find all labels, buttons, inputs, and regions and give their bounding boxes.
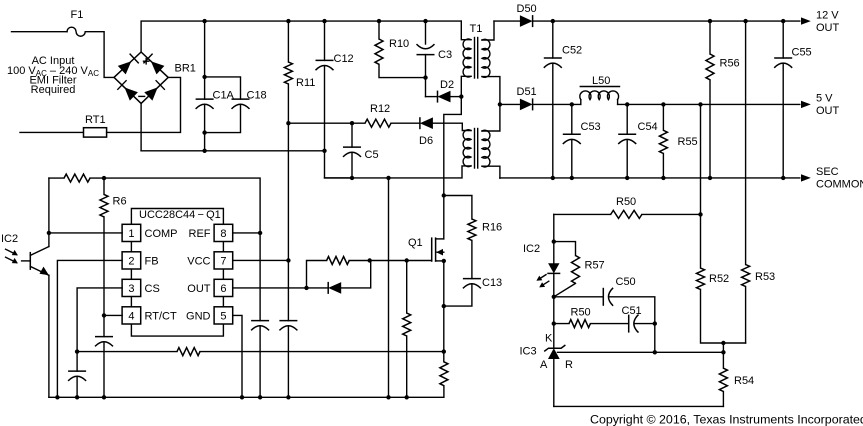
wire C1A top branch — [204, 21, 206, 99]
node D2 anode / switch line — [459, 94, 463, 98]
svg-text:7: 7 — [220, 255, 226, 267]
wire snubber branch top — [444, 196, 472, 220]
wire HV+ top rail — [141, 21, 461, 52]
svg-text:R57: R57 — [585, 260, 605, 272]
node opto cathode / compensation — [552, 295, 556, 299]
node ground rail / CS cap — [75, 395, 79, 399]
op-amp U1 UCC28C44-Q1 box outline — [131, 209, 223, 337]
svg-text:4: 4 — [128, 310, 134, 322]
svg-text:FB: FB — [145, 255, 159, 267]
svg-text:L50: L50 — [592, 75, 610, 87]
wire 5V rail — [618, 103, 800, 105]
svg-text:R50: R50 — [616, 196, 636, 208]
svg-text:GND: GND — [186, 310, 211, 322]
wire bridge top corner to HV top rail — [140, 103, 142, 150]
svg-text:Copyright © 2016, Texas Instru: Copyright © 2016, Texas Instruments Inco… — [590, 413, 863, 426]
svg-text:D50: D50 — [517, 3, 537, 15]
svg-text:5 V: 5 V — [816, 93, 833, 105]
wire AC line 1 (left segment to fuse) — [12, 31, 68, 33]
node snubber return — [442, 304, 446, 308]
label bridge minus — [139, 95, 145, 97]
capacitor C50 — [554, 288, 655, 353]
LED light arrow 2 — [539, 281, 549, 287]
svg-text:K: K — [545, 333, 553, 345]
wire HV negative rail — [141, 150, 324, 152]
arrow 12V output — [801, 17, 811, 24]
diode IC2 opto LED — [547, 263, 560, 348]
node drain branch junction — [442, 193, 446, 197]
svg-text:F1: F1 — [71, 9, 84, 21]
svg-text:R50: R50 — [571, 307, 591, 319]
node ground rail / equalize drop — [386, 395, 390, 399]
svg-text:D6: D6 — [419, 135, 433, 147]
diode D50 — [520, 15, 533, 27]
svg-text:IC2: IC2 — [1, 233, 18, 245]
opto light arrow 2 — [6, 257, 18, 263]
wire SEC COMMON rail — [500, 177, 800, 179]
node RT/CT junction — [102, 313, 106, 317]
wire bottom return to IC3 anode — [554, 405, 724, 407]
svg-text:RT1: RT1 — [85, 114, 106, 126]
node 12V / C55 — [781, 19, 785, 23]
node R6 top / REF line — [102, 176, 106, 180]
wire opto LED anode column — [553, 214, 555, 263]
resistor R54 — [719, 352, 727, 406]
bridge diode D-d (bottom corner to right corner) — [144, 81, 164, 101]
node 5V / C54 — [625, 102, 629, 106]
wire CS filter line right — [200, 351, 444, 353]
pin 7 box — [214, 252, 233, 269]
node FB / R54 — [721, 350, 725, 354]
node SEC / C54 — [625, 176, 629, 180]
svg-text:BR1: BR1 — [175, 63, 196, 75]
node CS junction — [442, 349, 446, 353]
resistor R11 (startup, HV rail to VCC) — [284, 21, 292, 260]
node HV rail / C3 — [423, 19, 427, 23]
node C1A/C18 bottom join — [202, 130, 206, 134]
node HV rail / R10 — [377, 19, 381, 23]
transformer T1 primary winding — [444, 21, 471, 195]
svg-text:C51: C51 — [622, 305, 642, 317]
svg-text:R54: R54 — [734, 375, 754, 387]
node SEC / C53 — [570, 176, 574, 180]
diode gate turn-off — [307, 261, 371, 294]
wire bias rectifier line (R11 to R12) — [288, 122, 365, 124]
svg-text:SEC: SEC — [816, 166, 839, 178]
wire IC3 ref to FB line — [558, 351, 724, 353]
svg-text:D51: D51 — [517, 86, 537, 98]
pin 4 box — [122, 307, 141, 324]
node R52 column / R50 tap — [698, 212, 702, 216]
node ground rail / pulldown — [405, 395, 409, 399]
wire RT1 to bridge right corner — [107, 77, 181, 132]
wire D51 branch — [500, 103, 520, 105]
transformer T1 secondary winding (12V) — [482, 21, 500, 131]
bridge diode D-a (left corner to top corner) — [118, 54, 139, 74]
svg-text:OUT: OUT — [816, 22, 840, 34]
node C5 top — [350, 121, 354, 125]
node HV rail / C1A — [202, 19, 206, 23]
resistor gate drive — [327, 257, 350, 265]
LED light arrow 1 — [536, 275, 546, 281]
fuse F1 — [67, 27, 85, 36]
node REF junction — [258, 231, 262, 235]
capacitor REF bypass — [251, 233, 269, 397]
node SEC / R56 — [708, 176, 712, 180]
transformer T1 secondary winding (5V) — [482, 130, 500, 178]
pin 6 box — [214, 279, 233, 296]
resistor R56 — [706, 21, 714, 178]
transformer T1 core — [475, 38, 478, 169]
diode D2 (clamp) — [426, 91, 462, 103]
capacitor C1A — [196, 99, 214, 133]
node Q1 source — [442, 259, 446, 263]
resistor CS filter — [177, 348, 200, 356]
diode D6 (bias rectifier) — [391, 117, 471, 130]
node neg rail / C1A bottom — [202, 149, 206, 153]
capacitor C13 — [444, 279, 481, 307]
svg-text:T1: T1 — [470, 23, 483, 35]
resistor R12 — [365, 119, 391, 127]
node divider join — [721, 341, 725, 345]
svg-text:C1A: C1A — [213, 90, 235, 102]
wire ground equalize drop — [388, 178, 390, 397]
capacitor C52 — [544, 21, 562, 178]
node C5 bottom — [350, 176, 354, 180]
svg-text:IC3: IC3 — [520, 346, 537, 358]
node ground rail / VCC cap — [286, 395, 290, 399]
resistor current sense — [49, 352, 448, 398]
svg-text:R55: R55 — [678, 136, 698, 148]
node 5V / R55 — [661, 102, 665, 106]
resistor REF pull-up — [64, 174, 90, 182]
wire OUT pin network: riser — [307, 261, 327, 288]
svg-text:C50: C50 — [616, 276, 636, 288]
node COMP / opto collector — [47, 231, 51, 235]
wire REF pull-up line — [49, 177, 64, 179]
node SEC / C55 — [781, 176, 785, 180]
node 12V / R56 — [708, 19, 712, 23]
svg-text:C53: C53 — [581, 121, 601, 133]
resistor R53 (12V feedback) — [742, 21, 750, 343]
svg-text:C12: C12 — [334, 53, 354, 65]
svg-text:REF: REF — [189, 228, 211, 240]
capacitor C53 — [563, 104, 581, 177]
svg-text:COMMON: COMMON — [816, 179, 863, 191]
pin 8 box — [214, 224, 233, 241]
resistor R57 — [554, 242, 580, 297]
inductor L50 — [580, 87, 620, 105]
resistor R16 — [468, 219, 476, 240]
pin 5 box — [214, 307, 233, 324]
node compensation column join — [653, 321, 657, 325]
svg-text:R11: R11 — [296, 77, 315, 89]
wire pin1 COMP to opto collector — [49, 232, 122, 234]
node OUT network split — [304, 286, 308, 290]
wire 12V rail — [533, 20, 800, 22]
svg-text:D2: D2 — [440, 79, 454, 91]
opto light arrow 1 — [6, 249, 18, 255]
node primary ground drop — [386, 176, 390, 180]
resistor gate pulldown — [403, 261, 411, 398]
node 5V / C53 — [570, 102, 574, 106]
svg-text:CS: CS — [145, 283, 160, 295]
wire C18 top branch — [205, 77, 241, 99]
node R50/C51 branch — [552, 321, 556, 325]
node neg rail / C12 bottom corner — [322, 149, 326, 153]
svg-text:OUT: OUT — [187, 283, 211, 295]
svg-text:Q1: Q1 — [408, 237, 423, 249]
svg-text:R52: R52 — [709, 273, 729, 285]
bridge diode D-c (bottom corner to left corner) — [118, 81, 138, 101]
wire Q1 source down — [443, 261, 445, 352]
pin 1 box — [122, 224, 141, 241]
wire pin6 OUT stub — [233, 287, 307, 289]
svg-text:3: 3 — [128, 283, 134, 295]
wire pin2 FB to ground — [57, 260, 122, 397]
node secondary mid tap (D51) — [498, 102, 502, 106]
node 12V / R53 — [743, 19, 747, 23]
svg-text:A: A — [540, 359, 548, 371]
node CS filter junction — [75, 349, 79, 353]
node VCC junction — [286, 258, 290, 262]
capacitor CS filter — [68, 352, 86, 398]
wire D51 to C53 node — [533, 103, 581, 105]
node 5V / R52 — [698, 102, 702, 106]
svg-text:R16: R16 — [482, 222, 502, 234]
capacitor C12 — [316, 21, 353, 178]
node ground rail / CT cap — [102, 395, 106, 399]
resistor R50 (opto feed) — [554, 210, 701, 218]
node SEC / C52 — [551, 176, 555, 180]
node LED anode / R57 — [552, 239, 556, 243]
svg-text:C5: C5 — [365, 149, 379, 161]
thermistor RT1 — [84, 128, 107, 137]
pin 3 box — [122, 279, 141, 296]
svg-text:RT/CT: RT/CT — [145, 310, 177, 322]
bridge diode D-b (right corner to top corner) — [144, 54, 165, 74]
node 12V / C52 — [551, 19, 555, 23]
wire pull-up to REF column — [90, 178, 260, 233]
wire gate resistor to gate node — [349, 260, 432, 262]
shunt regulator IC3 (TL431) — [544, 345, 565, 406]
node ground rail / GND leg — [240, 395, 244, 399]
resistor R10 (clamp) — [375, 21, 426, 78]
svg-text:6: 6 — [220, 283, 226, 295]
bridge rectifier BR1 diamond — [114, 52, 168, 103]
wire secondary top to D50 — [494, 20, 520, 22]
node ground rail / FB — [55, 395, 59, 399]
svg-text:R53: R53 — [755, 271, 775, 283]
wire R16 to C13 — [471, 240, 473, 278]
svg-text:R: R — [565, 359, 573, 371]
wire AC line 2 (left to RT1) — [20, 131, 84, 133]
wire pin7 VCC stub — [233, 259, 289, 261]
wire drain to MOSFET — [443, 196, 445, 239]
svg-text:5: 5 — [220, 310, 226, 322]
wire pin3 CS leg — [77, 288, 122, 352]
svg-text:C13: C13 — [482, 277, 502, 289]
svg-text:R12: R12 — [370, 103, 390, 115]
node ground rail / REF cap — [258, 395, 262, 399]
svg-text:OUT: OUT — [816, 105, 840, 117]
label bridge plus — [144, 59, 149, 64]
svg-text:1: 1 — [128, 228, 134, 240]
capacitor C54 — [618, 104, 636, 177]
wire AC line 1 (fuse to bridge left corner) — [85, 32, 114, 78]
wire primary ground line (below transformer) — [325, 166, 472, 178]
node FB line / compensation — [653, 350, 657, 354]
wire pin5 GND leg — [233, 315, 242, 397]
svg-text:VCC: VCC — [187, 255, 210, 267]
capacitor C18 — [205, 99, 250, 133]
svg-text:R10: R10 — [389, 38, 409, 50]
svg-text:C55: C55 — [792, 47, 812, 59]
resistor R6 (RT) — [100, 178, 108, 337]
wire pin4 RT/CT stub — [104, 314, 122, 316]
svg-text:C54: C54 — [638, 121, 658, 133]
node C1A/C18 split — [202, 75, 206, 79]
capacitor CT — [95, 337, 113, 398]
arrow 5V output — [801, 101, 811, 108]
svg-text:IC2: IC2 — [523, 243, 540, 255]
node gate pulldown top — [405, 258, 409, 262]
resistor R55 — [659, 104, 667, 177]
wire pin8 REF stub — [233, 232, 260, 234]
svg-text:12 V: 12 V — [816, 10, 839, 22]
capacitor C51 — [629, 315, 655, 333]
wire C1A bottom to neg rail — [204, 133, 206, 151]
transformer T1 bias winding — [463, 130, 471, 167]
node SEC / R55 — [661, 176, 665, 180]
svg-text:R6: R6 — [113, 196, 127, 208]
svg-text:Required: Required — [31, 84, 76, 96]
node HV rail / C12 — [322, 19, 326, 23]
transistor Q1 (power MOSFET) — [432, 237, 444, 261]
svg-text:2: 2 — [128, 255, 134, 267]
arrow SEC COMMON output — [801, 174, 811, 181]
svg-text:C18: C18 — [247, 90, 267, 102]
svg-text:8: 8 — [220, 228, 226, 240]
wire CS filter line — [77, 351, 177, 353]
svg-text:R56: R56 — [720, 58, 740, 70]
wire divider to FB node — [722, 343, 724, 352]
node gate network join — [368, 258, 372, 262]
resistor R50 (series) — [554, 320, 629, 328]
pin 2 box — [122, 252, 141, 269]
svg-text:C52: C52 — [562, 45, 582, 57]
node HV rail / R11 — [286, 19, 290, 23]
capacitor C55 — [774, 21, 792, 178]
node R10/C3 junction — [423, 75, 427, 79]
svg-text:COMP: COMP — [145, 228, 178, 240]
svg-text:UCC28C44 − Q1: UCC28C44 − Q1 — [139, 209, 221, 221]
node R11 bottom / bias line — [286, 121, 290, 125]
diode D51 — [520, 98, 533, 110]
svg-text:C3: C3 — [438, 49, 452, 61]
capacitor C5 (bias filter) — [343, 123, 361, 178]
transistor IC2 opto phototransistor — [22, 178, 49, 397]
capacitor VCC bypass — [279, 260, 297, 397]
resistor R52 (5V feedback) — [697, 104, 746, 343]
capacitor C3 (clamp, reversed) — [417, 21, 435, 97]
